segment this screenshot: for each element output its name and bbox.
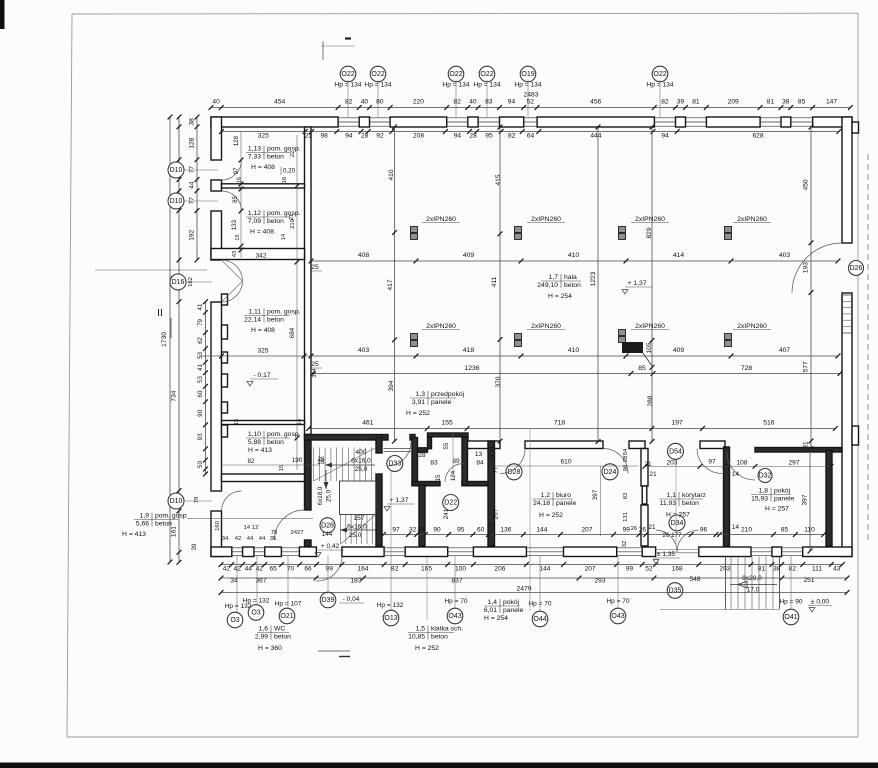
svg-text:94: 94 (454, 133, 462, 140)
leader lines bottom (237, 556, 791, 613)
svg-text:O41: O41 (784, 614, 797, 621)
scan artifact top-left (0, 0, 5, 29)
door swing D10 bottom (222, 491, 242, 511)
upper inner dimension row (219, 129, 841, 139)
svg-text:22,14: 22,14 (244, 316, 261, 323)
room 1.8 north wall (755, 448, 842, 453)
svg-text:3,91: 3,91 (412, 399, 425, 406)
window circles top (340, 66, 668, 82)
svg-text:38: 38 (189, 118, 196, 126)
hall south wall east part (467, 441, 725, 449)
svg-text:1,7: 1,7 (549, 274, 559, 281)
svg-text:D16: D16 (172, 279, 185, 286)
svg-text:444: 444 (590, 133, 601, 140)
svg-text:628: 628 (752, 133, 763, 140)
bottom dimension row A (219, 562, 845, 572)
svg-text:81: 81 (758, 566, 766, 573)
svg-text:D39: D39 (322, 597, 335, 604)
svg-text:206: 206 (494, 566, 505, 573)
door circle D10 top (168, 162, 218, 178)
hall vertical dim line B (498, 125, 503, 444)
svg-text:1,12: 1,12 (248, 210, 261, 217)
svg-text:417: 417 (387, 279, 394, 290)
room label 1.5 staircase (408, 557, 463, 652)
room label 1.1 (659, 492, 707, 519)
svg-text:99: 99 (326, 566, 334, 573)
svg-text:161: 161 (171, 526, 178, 537)
svg-text:H = 254: H = 254 (548, 293, 572, 300)
svg-text:2xIPN260: 2xIPN260 (531, 323, 561, 330)
svg-text:83: 83 (485, 99, 493, 106)
svg-text:26: 26 (631, 526, 638, 532)
svg-text:297: 297 (789, 460, 800, 467)
svg-text:34: 34 (417, 527, 425, 534)
svg-text:548: 548 (690, 576, 701, 583)
svg-text:25: 25 (311, 361, 319, 368)
svg-text:82: 82 (661, 99, 669, 106)
svg-text:577: 577 (803, 361, 810, 372)
left pilaster dims (191, 299, 221, 550)
svg-text:14: 14 (281, 234, 287, 240)
svg-text:16: 16 (282, 177, 288, 183)
svg-text:Hp = 132: Hp = 132 (243, 598, 270, 605)
svg-text:O19: O19 (521, 71, 534, 78)
door circle D24 (602, 464, 618, 480)
svg-text:14: 14 (297, 419, 303, 425)
west exterior wall (211, 117, 222, 557)
door circle D35 (667, 583, 683, 599)
svg-text:+ 0,42: + 0,42 (321, 543, 340, 550)
right dim 397 (802, 447, 813, 554)
svg-text:42: 42 (223, 566, 231, 573)
svg-text:54: 54 (623, 448, 629, 455)
room label 1.13 (246, 146, 301, 176)
svg-text:14: 14 (732, 471, 739, 478)
svg-text:6,01: 6,01 (484, 607, 497, 614)
room label 1.3 (406, 391, 465, 417)
svg-text:55: 55 (443, 442, 450, 449)
svg-text:1,8: 1,8 (759, 488, 769, 495)
svg-text:26: 26 (318, 456, 325, 463)
svg-text:21: 21 (644, 461, 652, 468)
threshold lines D33 corridor (384, 449, 413, 452)
svg-text:77: 77 (189, 166, 196, 174)
svg-text:410: 410 (568, 347, 580, 354)
svg-text:77: 77 (493, 466, 500, 473)
svg-text:92: 92 (376, 133, 384, 140)
svg-text:beton: beton (267, 316, 284, 323)
svg-text:411: 411 (491, 276, 498, 287)
svg-text:D33: D33 (388, 461, 401, 468)
svg-text:82: 82 (345, 99, 353, 106)
section mark top (321, 39, 355, 61)
svg-text:28: 28 (361, 133, 369, 140)
door circle D26 (849, 261, 864, 276)
svg-text:25,0: 25,0 (349, 532, 362, 539)
splay dims above south wall left (222, 536, 277, 542)
svg-text:128: 128 (189, 137, 196, 148)
svg-text:90: 90 (197, 409, 204, 416)
door leaf in office east wall (642, 486, 647, 504)
room label 1.12 (246, 210, 301, 236)
hall rotated dims (387, 169, 654, 406)
svg-text:64: 64 (527, 133, 535, 140)
svg-text:42: 42 (235, 536, 242, 542)
svg-text:H = 413: H = 413 (248, 447, 272, 454)
svg-text:461: 461 (362, 420, 374, 427)
svg-text:1,9: 1,9 (140, 513, 150, 520)
svg-text:39: 39 (677, 99, 685, 106)
svg-text:65: 65 (269, 566, 277, 573)
svg-text:684: 684 (289, 327, 296, 338)
svg-text:136: 136 (500, 527, 511, 534)
hall dim row lower (199, 253, 840, 359)
svg-text:98: 98 (320, 133, 328, 140)
svg-text:korytarz: korytarz (682, 492, 707, 499)
door swing D10 second (222, 191, 242, 211)
svg-text:41: 41 (197, 363, 204, 370)
svg-text:H = 252: H = 252 (406, 410, 430, 417)
svg-text:2xIPN260: 2xIPN260 (737, 216, 767, 223)
svg-text:394: 394 (312, 368, 318, 377)
room label 1.10 (246, 431, 301, 454)
svg-text:39: 39 (191, 543, 198, 550)
svg-text:85: 85 (781, 527, 789, 534)
stairwell east wall (376, 438, 382, 547)
svg-text:O43: O43 (448, 613, 461, 620)
svg-text:+ 1,37: + 1,37 (390, 497, 409, 504)
svg-text:D32: D32 (759, 473, 772, 480)
room 1.8 east partition (826, 450, 832, 546)
door circle D28 office (506, 464, 522, 480)
svg-text:2483: 2483 (523, 92, 538, 99)
wc west wall (419, 485, 425, 546)
storeroom inner dim column (231, 131, 296, 258)
svg-text:81: 81 (767, 99, 775, 106)
svg-text:28: 28 (469, 133, 477, 140)
svg-text:przedpokój: przedpokój (431, 391, 465, 398)
svg-text:144: 144 (539, 566, 550, 573)
svg-text:D10: D10 (170, 498, 183, 505)
svg-text:41: 41 (197, 303, 204, 310)
svg-text:2xIPN260: 2xIPN260 (635, 216, 665, 223)
svg-text:60: 60 (197, 390, 204, 397)
svg-text:38: 38 (773, 566, 781, 573)
svg-text:6x18,0: 6x18,0 (317, 486, 324, 505)
svg-text:100: 100 (455, 566, 466, 573)
vestibule east wall (462, 437, 468, 485)
svg-text:454: 454 (274, 99, 285, 106)
svg-text:7,33: 7,33 (248, 153, 261, 160)
bottom dimension row B (219, 576, 850, 585)
svg-text:panele: panele (774, 495, 795, 502)
hall dim row upper (309, 252, 841, 263)
svg-text:D28: D28 (508, 469, 521, 476)
svg-text:342: 342 (256, 253, 267, 260)
svg-text:85: 85 (638, 365, 646, 372)
stair text upper (317, 449, 371, 505)
wall between rooms 1.13 and 1.12 (222, 184, 305, 188)
svg-text:52: 52 (527, 99, 535, 106)
svg-text:II: II (157, 308, 163, 319)
svg-text:beton: beton (564, 282, 581, 289)
svg-text:Hp = 132: Hp = 132 (377, 602, 404, 609)
hall vertical dim line C (596, 125, 601, 445)
level mark -0,04 (318, 596, 364, 657)
svg-text:50: 50 (197, 461, 204, 468)
svg-text:85: 85 (232, 196, 239, 203)
svg-text:197: 197 (671, 420, 683, 427)
section mark left (95, 270, 207, 338)
level mark +1,37 hall (622, 280, 652, 294)
svg-text:2xIPN260: 2xIPN260 (635, 323, 665, 330)
storeroom vertical dim 684 (289, 135, 299, 470)
svg-text:O22: O22 (341, 71, 354, 78)
svg-text:H = 252: H = 252 (539, 512, 563, 519)
svg-text:pom. gosp.: pom. gosp. (267, 210, 301, 217)
west wall pilasters (222, 294, 228, 437)
svg-text:H = 413: H = 413 (122, 531, 146, 538)
svg-text:31: 31 (803, 441, 810, 449)
svg-text:7,09: 7,09 (248, 218, 261, 225)
external stairs south-east (660, 557, 780, 610)
svg-text:400: 400 (356, 449, 367, 456)
svg-text:94: 94 (345, 133, 353, 140)
svg-text:1730: 1730 (161, 332, 168, 347)
svg-text:249,10: 249,10 (537, 282, 558, 289)
svg-text:82: 82 (789, 566, 797, 573)
svg-text:panele: panele (431, 399, 452, 406)
svg-text:456: 456 (590, 99, 601, 106)
svg-text:O13: O13 (384, 615, 397, 622)
svg-text:O21: O21 (280, 613, 293, 620)
level mark 0,00 (808, 599, 832, 613)
Hp labels top (334, 80, 673, 117)
door swing D16 double (222, 260, 243, 302)
external stair dims (650, 575, 815, 594)
svg-text:H = 408: H = 408 (250, 229, 274, 236)
svg-text:207: 207 (582, 527, 593, 534)
door swing at w1 bottom (275, 510, 305, 540)
svg-text:14: 14 (489, 523, 495, 529)
svg-text:80: 80 (376, 99, 384, 106)
door circle D39 (320, 592, 336, 608)
svg-text:53: 53 (197, 376, 204, 383)
wall piece vestibule to bump (418, 448, 428, 452)
svg-text:1,2: 1,2 (541, 492, 551, 499)
svg-text:pokój: pokój (503, 599, 520, 606)
scan artifact bottom bar (0, 763, 878, 768)
left overall dim 1730 (161, 115, 172, 565)
level mark 1,35 (653, 551, 680, 564)
svg-text:D35: D35 (669, 588, 682, 595)
svg-text:± 1,35: ± 1,35 (657, 551, 676, 558)
svg-text:124: 124 (450, 470, 457, 481)
vestibule west wall (412, 438, 418, 486)
svg-text:32: 32 (409, 527, 417, 534)
svg-text:95: 95 (485, 133, 493, 140)
svg-text:133: 133 (231, 219, 238, 230)
svg-text:34: 34 (222, 536, 229, 542)
room label 1.7 hall (537, 274, 581, 300)
svg-text:1,3: 1,3 (416, 391, 426, 398)
svg-text:- 0,17: - 0,17 (253, 372, 271, 379)
svg-text:97: 97 (392, 527, 400, 534)
left dim column main (171, 115, 182, 565)
vestibule dims (418, 433, 499, 529)
right dim column (803, 125, 814, 452)
svg-text:O44: O44 (533, 616, 546, 623)
svg-text:82: 82 (248, 458, 255, 465)
column in hall (622, 342, 652, 366)
svg-text:183: 183 (351, 578, 362, 585)
door swing D26 (792, 243, 842, 293)
svg-text:82: 82 (391, 566, 399, 573)
svg-text:397: 397 (592, 489, 599, 500)
svg-text:418: 418 (463, 347, 475, 354)
svg-text:410: 410 (568, 252, 580, 259)
svg-text:26 177: 26 177 (663, 532, 683, 539)
svg-text:79: 79 (197, 319, 204, 326)
svg-text:6x16,0: 6x16,0 (347, 524, 367, 531)
svg-text:25,0: 25,0 (355, 466, 368, 473)
svg-text:111: 111 (812, 566, 822, 573)
svg-text:44: 44 (245, 566, 253, 573)
interior dim row south (381, 527, 826, 537)
stair corridor dims (244, 459, 333, 538)
wc north wall (412, 482, 488, 486)
svg-text:403: 403 (358, 347, 370, 354)
svg-text:131: 131 (623, 512, 629, 522)
svg-text:108: 108 (737, 460, 748, 467)
svg-text:10,85: 10,85 (408, 633, 425, 640)
door swing D32 (727, 452, 755, 480)
svg-text:51,31: 51,31 (491, 446, 497, 461)
svg-text:D24: D24 (604, 469, 617, 476)
svg-text:40: 40 (212, 99, 220, 106)
svg-text:pom. gosp: pom. gosp (155, 513, 187, 520)
svg-text:190: 190 (292, 457, 303, 464)
svg-text:1223: 1223 (590, 271, 597, 286)
svg-text:79: 79 (194, 497, 200, 504)
svg-text:62: 62 (197, 337, 204, 344)
svg-text:52: 52 (645, 566, 653, 573)
svg-text:43: 43 (833, 566, 841, 573)
svg-text:44: 44 (259, 536, 266, 542)
svg-text:83: 83 (430, 460, 438, 467)
svg-text:415: 415 (495, 174, 502, 185)
corridor east wall (724, 447, 730, 546)
svg-text:beton: beton (267, 153, 284, 160)
svg-text:O43: O43 (611, 613, 624, 620)
svg-text:15,93: 15,93 (751, 495, 768, 502)
svg-text:219: 219 (290, 219, 296, 229)
svg-text:53: 53 (197, 351, 204, 358)
svg-text:85: 85 (798, 99, 806, 106)
svg-text:2479: 2479 (516, 586, 531, 593)
svg-text:251: 251 (804, 577, 815, 584)
svg-text:D22: D22 (444, 500, 457, 507)
south exterior wall (211, 547, 852, 557)
svg-text:11,93: 11,93 (660, 500, 677, 507)
svg-text:40: 40 (361, 99, 369, 106)
level mark +1,37 corridor (384, 497, 414, 511)
svg-text:408: 408 (358, 252, 370, 259)
svg-text:beton: beton (274, 633, 291, 640)
wall between rooms 1.12 and 1.11 (211, 249, 305, 260)
door swing D33 (387, 442, 411, 466)
svg-text:5,88: 5,88 (248, 439, 261, 446)
svg-text:209: 209 (728, 99, 739, 106)
wall thickness labels 25 (311, 264, 322, 368)
svg-text:D34: D34 (671, 520, 684, 527)
svg-text:414: 414 (673, 252, 685, 259)
svg-text:H = 360: H = 360 (258, 645, 282, 652)
svg-text:93: 93 (197, 433, 204, 440)
svg-text:O22: O22 (480, 71, 493, 78)
svg-text:21: 21 (649, 524, 656, 531)
top dimension row (209, 99, 853, 110)
svg-text:O22: O22 (371, 71, 384, 78)
svg-text:168: 168 (672, 566, 683, 573)
svg-text:beton: beton (431, 633, 448, 640)
door circle D33 (387, 429, 530, 612)
svg-text:160: 160 (215, 520, 221, 531)
svg-text:17,0: 17,0 (747, 587, 760, 594)
corridor wall dims (592, 448, 739, 547)
svg-text:1,11: 1,11 (248, 309, 261, 316)
svg-text:panele: panele (556, 500, 577, 507)
svg-text:13: 13 (475, 451, 483, 458)
svg-text:klatka sch.: klatka sch. (431, 626, 463, 633)
svg-text:- 0,04: - 0,04 (343, 596, 360, 603)
svg-text:26: 26 (639, 527, 647, 534)
door swing D34 exterior double (656, 530, 699, 553)
dashed boundary line right (867, 154, 869, 543)
svg-text:D26: D26 (850, 265, 863, 272)
svg-text:Hp = 70: Hp = 70 (444, 598, 467, 605)
svg-text:O3: O3 (251, 610, 260, 617)
door swing D22 (445, 464, 464, 483)
east wall step (852, 426, 859, 445)
door circle D54 (668, 443, 684, 459)
svg-text:96: 96 (700, 527, 708, 534)
door swing D54 corridor (697, 449, 722, 474)
vestibule 1.3 outline (428, 433, 469, 449)
svg-text:14 12: 14 12 (244, 525, 259, 531)
svg-text:16: 16 (237, 177, 243, 183)
svg-text:D54: D54 (669, 449, 682, 456)
svg-text:97: 97 (708, 459, 716, 466)
svg-text:35: 35 (270, 536, 277, 542)
window circles bottom (227, 605, 799, 628)
svg-text:40: 40 (469, 99, 477, 106)
svg-text:28: 28 (623, 455, 629, 462)
north exterior wall (211, 117, 852, 127)
door swing D39 exterior (316, 557, 342, 581)
tiny wall labels (234, 177, 318, 425)
office 1.2 east wall (641, 449, 648, 547)
svg-text:97: 97 (233, 167, 240, 174)
svg-text:25: 25 (311, 264, 319, 271)
svg-text:147: 147 (826, 99, 837, 106)
svg-text:28: 28 (418, 452, 426, 459)
svg-text:H = 408: H = 408 (251, 327, 275, 334)
svg-text:H = 408: H = 408 (251, 164, 275, 171)
svg-text:1,13: 1,13 (248, 146, 261, 153)
svg-text:beton: beton (682, 500, 699, 507)
svg-text:90: 90 (433, 527, 441, 534)
